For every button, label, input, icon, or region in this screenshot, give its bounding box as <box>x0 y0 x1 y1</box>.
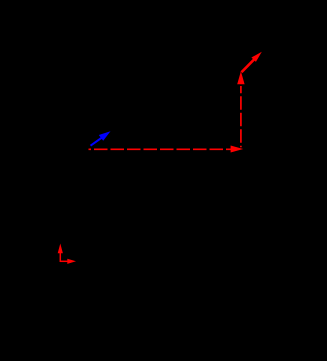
small red coordinate axes: y-axis arrow (up) <box>58 244 63 263</box>
red vertical dashed component vy (arrow up) <box>237 71 244 147</box>
red horizontal dashed component vx (arrow right) <box>89 146 244 153</box>
red resultant velocity vector v (solid diagonal arrow) <box>242 52 262 72</box>
small red coordinate axes: x-axis arrow (right) <box>60 259 76 264</box>
blue initial-velocity vector v0 <box>91 131 111 145</box>
